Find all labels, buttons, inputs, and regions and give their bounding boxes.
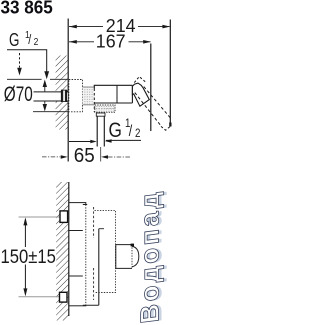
svg-text:167: 167	[96, 30, 126, 52]
svg-text:G: G	[109, 120, 122, 143]
dimension 65	[42, 156, 60, 158]
svg-text:Водопад: Водопад	[135, 188, 165, 325]
cartridge housing dotted	[95, 210, 116, 292]
wall face line top view	[67, 19, 69, 162]
dimension 150+-15	[24, 220, 26, 248]
dimension 167	[69, 41, 94, 43]
hidden edge dashed upper	[93, 207, 95, 238]
dia 70 dimension line	[44, 87, 46, 92]
extension line escutcheon top	[7, 78, 42, 80]
knob corner mark	[131, 244, 134, 247]
svg-text:2: 2	[34, 36, 39, 47]
leader underline G1/2 top	[7, 50, 47, 72]
svg-text:G: G	[9, 30, 19, 51]
svg-text:33 865: 33 865	[1, 0, 53, 18]
extension line 214	[169, 20, 171, 124]
underline with arrow G1/2 outlet	[106, 139, 141, 141]
neck	[83, 87, 95, 104]
centre line upper connection	[19, 216, 61, 218]
centre line lower connection	[19, 296, 60, 298]
extension line pipe centre	[100, 147, 102, 162]
svg-text:/: /	[129, 121, 133, 139]
hidden edge dashed lower	[93, 268, 95, 300]
dimension 214	[69, 26, 103, 28]
escutcheon upper	[69, 203, 86, 231]
wall face line bottom view	[68, 182, 70, 316]
lever tip mark	[169, 123, 171, 127]
wall hatch bottom view	[56, 182, 68, 321]
washer	[96, 113, 105, 116]
leader arrow G1/2 top	[44, 71, 49, 79]
body block	[83, 205, 99, 306]
lever solid	[132, 83, 149, 106]
union square lower	[60, 292, 68, 302]
escutcheon lower	[69, 276, 86, 306]
escutcheon top view (dashed)	[69, 80, 83, 112]
dashed leader arrow	[19, 53, 21, 68]
inlet thread block	[61, 90, 67, 102]
svg-text:65: 65	[74, 145, 95, 168]
label G1/2 top	[9, 29, 38, 51]
inlet pipe through wall	[34, 92, 69, 100]
wall hatch top view	[56, 56, 68, 130]
left arrow at pipe	[69, 141, 91, 143]
label G1/2 outlet	[109, 118, 141, 143]
union nut below body	[95, 105, 115, 112]
union square upper	[60, 211, 68, 223]
knob	[116, 245, 132, 269]
extension line escutcheon bottom	[33, 111, 68, 113]
lever dashed arm	[144, 87, 171, 118]
svg-text:Ø70: Ø70	[4, 82, 33, 106]
outlet pipe	[96, 116, 98, 146]
svg-text:150±15: 150±15	[1, 245, 56, 268]
lever dashed peak	[134, 77, 146, 83]
extension line 167	[150, 44, 152, 132]
svg-text:/: /	[28, 32, 32, 47]
svg-text:2: 2	[135, 127, 140, 140]
body top view	[94, 85, 132, 103]
